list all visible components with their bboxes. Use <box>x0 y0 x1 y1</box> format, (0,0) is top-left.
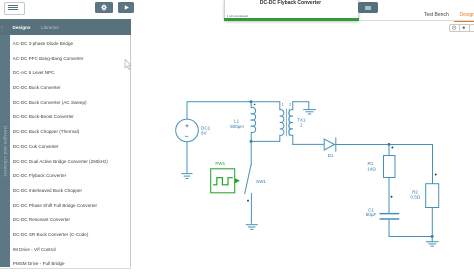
zoom button group <box>449 24 474 31</box>
svg-text:6V: 6V <box>201 130 208 135</box>
top bar <box>0 0 474 21</box>
ground (secondary top) <box>303 110 316 114</box>
transformer TX1 core <box>287 109 290 136</box>
wire: node B down to switch SW1 <box>250 141 252 165</box>
probe plus marker (R1/C1 node) <box>391 196 393 198</box>
active tab orange underline <box>454 21 474 23</box>
svg-text:500µH: 500µH <box>230 124 244 129</box>
capacitor C1 <box>380 214 398 219</box>
svg-text:SW1: SW1 <box>256 179 266 184</box>
sidebar bottom border <box>0 268 131 269</box>
probe plus marker (R2 top) <box>435 174 437 176</box>
svg-text:14Ω: 14Ω <box>367 166 376 171</box>
wire: C1 bottom to bottom rail <box>389 219 432 237</box>
svg-text:L1: L1 <box>234 118 240 123</box>
svg-text:PW1: PW1 <box>215 161 225 166</box>
title card <box>224 0 359 21</box>
label C1 50µF <box>366 207 377 217</box>
jobs list button (right of card) <box>358 2 378 13</box>
probe plus marker (node C) <box>391 147 393 149</box>
gear button <box>95 2 113 13</box>
svg-text:1: 1 <box>282 103 284 107</box>
wire: SW1 bottom to ground <box>250 193 252 223</box>
resistor R1 <box>384 156 396 178</box>
wire: secondary top to ground <box>293 102 309 109</box>
ground (below DC1) <box>181 174 192 179</box>
node B junction dot <box>250 140 253 143</box>
inductor L1 (magnetizing) <box>251 102 255 142</box>
svg-text:D1: D1 <box>328 153 334 158</box>
wire: DC1 top to node A <box>187 102 251 119</box>
pulse generator PW1 <box>211 169 235 193</box>
node C junction dot <box>388 143 391 146</box>
hamburger menu button <box>4 2 25 15</box>
svg-text:0.5Ω: 0.5Ω <box>410 195 420 200</box>
canvas top border <box>359 19 474 22</box>
diode D1 <box>324 138 336 151</box>
transformer TX1 primary winding <box>280 102 284 142</box>
switch SW1 <box>245 166 251 194</box>
wire: node D stub to ground <box>431 237 433 242</box>
label L1 500uH <box>230 118 244 129</box>
transformer TX1 secondary winding <box>289 102 293 145</box>
label R2 0.5Ω <box>410 189 420 199</box>
tab strip: Test Bench / Design <box>424 12 449 18</box>
sidebar right border <box>130 35 131 268</box>
label DC1 6V <box>201 126 211 136</box>
node A junction dot <box>250 100 253 103</box>
PW1 output port arrow <box>235 178 240 183</box>
switch terminal marker <box>247 200 249 202</box>
play button <box>118 2 135 13</box>
wire: DC1 bottom to ground <box>186 142 188 172</box>
svg-text:R2: R2 <box>412 189 418 194</box>
pin 1 tick mark <box>254 104 256 106</box>
mouse cursor <box>124 59 132 71</box>
sidebar header <box>0 19 131 34</box>
resistor R2 <box>426 184 439 208</box>
wire: R1 bottom to C1 <box>388 178 390 214</box>
label TX1 2 <box>297 117 306 127</box>
sidebar left strip <box>0 35 10 268</box>
svg-text:2: 2 <box>300 122 303 127</box>
wire: R2 bottom to bottom rail <box>431 208 433 237</box>
label R1 14Ω <box>367 161 376 172</box>
node D junction dot <box>431 235 434 238</box>
svg-text:2: 2 <box>289 103 291 107</box>
wire: L1 bottom / primary bottom rail <box>251 140 280 142</box>
wire: node C down to R1 <box>388 145 390 156</box>
wire: node A to TX1 primary pin 1 <box>251 101 280 103</box>
wire: D1 cathode to output node and corner <box>336 145 433 184</box>
ground (below SW1) <box>246 225 258 230</box>
wire: secondary bottom to diode D1 <box>293 143 324 145</box>
ground (output, bottom right) <box>426 242 439 246</box>
sidebar list panel <box>10 35 131 268</box>
DC voltage source DC1 <box>176 119 199 142</box>
svg-text:R1: R1 <box>367 161 373 166</box>
schematic canvas <box>131 21 474 279</box>
svg-text:50µF: 50µF <box>366 212 377 217</box>
